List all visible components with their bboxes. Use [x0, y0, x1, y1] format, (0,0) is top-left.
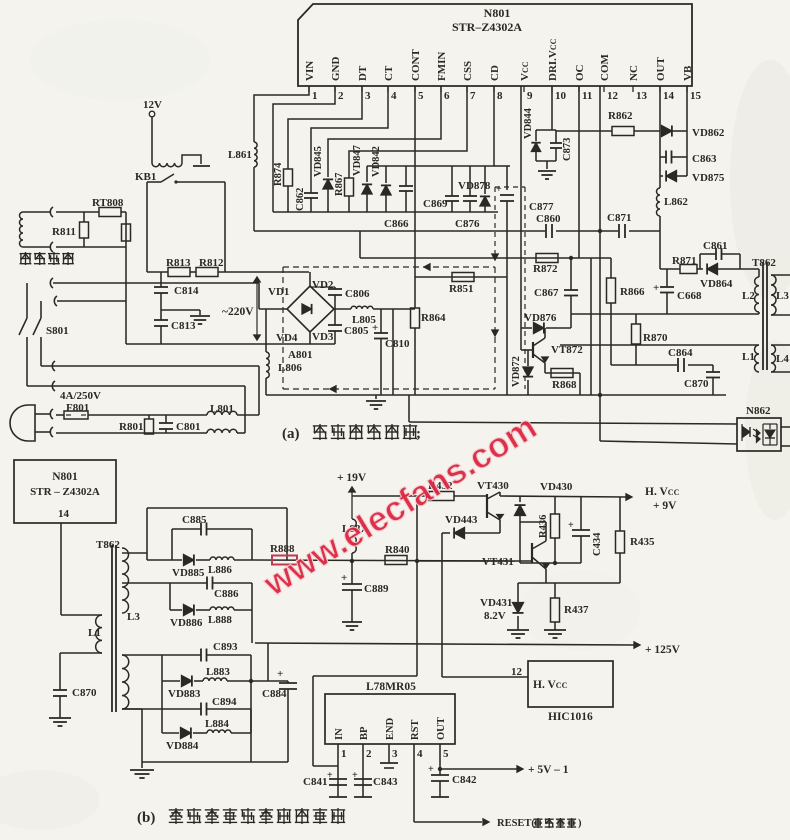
node 12V terminal [149, 111, 155, 117]
wire VD845 to bus [327, 189, 329, 212]
fuse F801 [56, 414, 64, 416]
wire OUT pin down [439, 744, 441, 775]
svg-text:10: 10 [555, 90, 567, 102]
IC N801 bottom box [14, 460, 116, 523]
ground C889 [342, 621, 362, 623]
resistor R851 [452, 273, 474, 282]
wire R812 to bridge top [218, 271, 309, 273]
wire AC line y301 [57, 300, 126, 302]
svg-text:VD842: VD842 [371, 146, 382, 177]
svg-text:DRI.VCC: DRI.VCC [547, 38, 559, 81]
wire bridge top to y272 [309, 272, 311, 286]
op-amp U1 IC N801 STR-Z4302A body [298, 4, 692, 86]
svg-text:(a): (a) [282, 426, 300, 442]
resistor R811 [83, 212, 85, 222]
capacitor C860 in line [545, 223, 556, 239]
svg-text:OUT: OUT [436, 717, 447, 740]
svg-text:+ 125V: + 125V [645, 644, 681, 656]
diode VD862 [662, 125, 672, 136]
svg-text:4A/250V: 4A/250V [60, 390, 101, 402]
svg-text:N862: N862 [746, 405, 771, 417]
svg-text:R870: R870 [643, 332, 668, 344]
svg-text:VD845: VD845 [313, 146, 324, 177]
ground main bus [375, 395, 377, 399]
svg-text:VD431: VD431 [480, 597, 512, 609]
resistor R872 [536, 254, 558, 263]
wire RST down to reset [413, 744, 415, 822]
svg-text:C876: C876 [455, 218, 480, 230]
IC L78MR05 box [325, 694, 455, 744]
svg-text:HIC1016: HIC1016 [548, 711, 593, 723]
capacitor C861 branch [699, 254, 701, 269]
svg-text:L1: L1 [88, 627, 101, 639]
wire R862 to VD862 [634, 130, 660, 132]
degaussing coil [20, 212, 24, 247]
svg-text:CD: CD [489, 65, 501, 81]
resistor R862 [612, 127, 634, 136]
wire pin2 outer loop [273, 86, 335, 212]
capacitor unlabeled pin8 [405, 166, 407, 186]
svg-text:+: + [653, 282, 659, 294]
svg-text:+: + [428, 764, 434, 775]
wire AC line y283 [53, 282, 259, 284]
svg-text:VIN: VIN [304, 61, 316, 81]
wire y365 line [611, 364, 713, 366]
svg-text:C813: C813 [171, 320, 196, 332]
capacitor C813 [154, 319, 168, 321]
svg-text:VCC: VCC [519, 61, 531, 81]
svg-text:VD847: VD847 [352, 145, 363, 176]
svg-text:C893: C893 [213, 641, 238, 653]
inductor L861 [254, 142, 257, 167]
svg-text:RST: RST [410, 720, 421, 740]
wire pin7 stair [349, 86, 467, 178]
wire x245 down [244, 386, 246, 433]
svg-text:;: ; [416, 426, 421, 442]
svg-text:OC: OC [574, 64, 586, 81]
optocoupler photodiode [769, 424, 771, 429]
svg-text:VD1: VD1 [268, 286, 289, 298]
svg-text:R867: R867 [334, 173, 345, 196]
svg-text:IN: IN [334, 728, 345, 740]
winding L1 bottom left [96, 615, 102, 653]
zener VD431 [517, 583, 519, 602]
svg-text:VD844: VD844 [523, 107, 534, 139]
svg-text:C884: C884 [262, 688, 287, 700]
svg-text:C434: C434 [592, 532, 603, 556]
dashed arrow top [424, 264, 430, 270]
svg-text:VD885: VD885 [172, 567, 205, 579]
capacitor C885 [172, 528, 201, 530]
wire lower loop right to 125V rail [251, 583, 253, 643]
svg-text:DT: DT [357, 65, 369, 81]
wire bottom AC line y433 [56, 432, 207, 434]
svg-text:1: 1 [341, 748, 347, 760]
capacitor C873 [550, 142, 562, 144]
diode VD842 [385, 166, 387, 183]
svg-text:C864: C864 [668, 347, 693, 359]
thermistor RT808 [56, 211, 99, 213]
capacitor C869 [451, 166, 453, 196]
node line y563 [520, 562, 581, 564]
svg-text:VD862: VD862 [692, 127, 725, 139]
wire C885 branch left [171, 529, 173, 560]
svg-text:FMIN: FMIN [436, 52, 448, 81]
svg-text:S801: S801 [46, 325, 69, 337]
diode VD878 [484, 166, 486, 194]
wire L862 down to C871 line [659, 216, 661, 231]
wire L1 feedback line y345 [560, 344, 759, 346]
transformer T862 bottom core [111, 545, 113, 712]
bridge inner diode [302, 304, 312, 314]
inductor L806 [265, 309, 267, 352]
inductor L888 [196, 609, 210, 611]
wire END pin down [388, 744, 390, 763]
svg-text:14: 14 [58, 508, 70, 520]
svg-text:A801: A801 [288, 349, 312, 361]
optocoupler N862 box [737, 418, 781, 451]
resistor unlabeled x126 [122, 224, 131, 241]
svg-text:L886: L886 [208, 564, 232, 576]
wire pin1 to L861 [254, 86, 309, 142]
wire loop left x162 [161, 655, 163, 733]
svg-text:VD878: VD878 [458, 180, 491, 192]
capacitor C801 [165, 415, 167, 423]
wire C871 to R871 line [659, 231, 661, 269]
svg-text:12: 12 [511, 666, 523, 678]
inductor L805 [351, 306, 373, 309]
ground R437 [544, 629, 566, 631]
svg-text:VT431: VT431 [482, 556, 514, 568]
relay contact box [147, 181, 161, 183]
svg-text:C869: C869 [423, 198, 448, 210]
svg-text:GND: GND [330, 57, 342, 82]
svg-text:C886: C886 [214, 588, 239, 600]
wire x591 down [590, 258, 592, 395]
dashed arrow right edge [492, 330, 498, 336]
resistor R436 [554, 497, 556, 514]
svg-text:): ) [578, 818, 582, 829]
svg-text:1: 1 [312, 90, 318, 102]
resistor R888 red marked [272, 556, 297, 565]
wire pin3 stair [288, 86, 362, 169]
svg-text:L883: L883 [206, 666, 230, 678]
svg-text:8.2V: 8.2V [484, 610, 506, 622]
diode VD884 [162, 732, 179, 734]
svg-text:T862: T862 [96, 539, 120, 551]
svg-text:R801: R801 [119, 421, 143, 433]
capacitor C870 right [712, 365, 714, 372]
wire N862 lower [600, 441, 737, 444]
node dot L883 out [249, 679, 253, 683]
svg-text:L4: L4 [776, 353, 789, 365]
ground VD431 [507, 629, 529, 631]
svg-text:R840: R840 [385, 544, 410, 556]
resistor R866 [610, 258, 612, 278]
resistor R868 line [545, 372, 580, 374]
wire pin8 cluster line [494, 165, 510, 167]
svg-text:OUT: OUT [655, 57, 667, 82]
svg-text:+ 19V: + 19V [337, 472, 367, 484]
capacitor C889 polarized [351, 561, 353, 584]
wire L3 top tap [122, 552, 147, 554]
wire R874 to bus [287, 186, 289, 212]
svg-text:F801: F801 [66, 402, 89, 414]
svg-text:+ 9V: + 9V [653, 500, 677, 512]
wire riser x360 [359, 231, 361, 258]
optocoupler LED [741, 424, 743, 441]
svg-text:L861: L861 [228, 149, 252, 161]
ground lower group [122, 708, 142, 710]
rail 19V y560 [252, 560, 515, 561]
svg-text:15: 15 [690, 90, 702, 102]
svg-text:VD3: VD3 [312, 331, 334, 343]
bottom bus lower group [142, 761, 288, 763]
transistor VT872 [521, 349, 533, 351]
svg-text:C862: C862 [295, 188, 306, 211]
svg-text:C866: C866 [384, 218, 409, 230]
svg-text:R437: R437 [564, 604, 589, 616]
svg-text:R812: R812 [199, 257, 224, 269]
ground C813 [190, 315, 210, 317]
svg-text:C889: C889 [364, 583, 389, 595]
svg-text:VD864: VD864 [700, 278, 733, 290]
svg-text:6: 6 [444, 90, 450, 102]
svg-text:VD876: VD876 [524, 312, 557, 324]
wire node down x393 [392, 309, 394, 395]
wire pin5 vertical [414, 86, 416, 308]
svg-text:C806: C806 [345, 288, 370, 300]
dashed arrow bottom [330, 386, 336, 392]
diode VD875 [660, 175, 663, 177]
wire pin11 down [578, 86, 580, 258]
svg-text:C870: C870 [72, 687, 97, 699]
arrow RESET [483, 819, 489, 825]
resistor R864 [411, 308, 420, 328]
capacitor C871 in line [618, 223, 629, 239]
diode VD872 [527, 350, 529, 366]
resistor R868 [551, 369, 573, 378]
bus y314 [571, 313, 759, 315]
svg-text:+ 5V – 1: + 5V – 1 [528, 764, 569, 776]
capacitor C886 [170, 582, 207, 584]
svg-text:C801: C801 [176, 421, 200, 433]
wire L861 to C866 line [253, 167, 255, 231]
resistor R801 [148, 415, 150, 419]
switch S801 pole2 [40, 301, 42, 318]
wire L3 mid tap [122, 582, 170, 584]
svg-text:H. VCC: H. VCC [533, 679, 568, 691]
wire lower loop left [169, 583, 171, 610]
svg-text:+: + [496, 184, 502, 195]
svg-text:12V: 12V [143, 99, 162, 111]
svg-text:R872: R872 [533, 263, 558, 275]
wire pin15 down [686, 86, 688, 176]
svg-text:R813: R813 [166, 257, 191, 269]
svg-text:CSS: CSS [462, 61, 474, 81]
svg-text:KB1: KB1 [135, 171, 156, 183]
wire L806 to bus [265, 378, 267, 395]
svg-text:R874: R874 [273, 162, 284, 186]
svg-text:L78MR05: L78MR05 [366, 681, 416, 693]
wire R432 line from 19V stem [352, 495, 429, 497]
wire block to R862 [556, 130, 612, 132]
svg-text:H. VCC: H. VCC [645, 486, 680, 498]
svg-text:BP: BP [359, 726, 370, 740]
svg-text:2: 2 [366, 748, 372, 760]
svg-text:R436: R436 [538, 515, 549, 538]
svg-text:13: 13 [636, 90, 648, 102]
capacitor unlabeled C876 area [469, 166, 471, 196]
node dot 19V [350, 559, 354, 563]
winding L2 [755, 277, 759, 312]
diode VD844 [531, 143, 540, 152]
resistor R871 [680, 265, 697, 274]
capacitor C810 polarized [380, 309, 382, 333]
svg-text:C842: C842 [452, 774, 477, 786]
transistor VT430 [486, 494, 488, 518]
svg-text:STR–Z4302A: STR–Z4302A [452, 20, 522, 34]
svg-text:VT872: VT872 [551, 344, 583, 356]
svg-text:C805: C805 [344, 325, 369, 337]
diode VD847 [366, 166, 368, 182]
capacitor C863 [660, 156, 666, 158]
winding lower secondary [122, 655, 129, 709]
winding L3 bottom [122, 548, 129, 613]
watermark elecfans [256, 407, 543, 604]
wire bridge right to L805 [334, 308, 351, 310]
svg-text:C873: C873 [562, 138, 573, 161]
optocoupler arrows [753, 429, 759, 433]
wire BP pin down [362, 744, 364, 797]
wire R872 line [360, 257, 611, 259]
wire x251 down [250, 681, 252, 762]
svg-text:R435: R435 [630, 536, 655, 548]
wire C862 to bus [310, 198, 312, 212]
capacitor C893 [200, 649, 202, 662]
svg-text:R862: R862 [608, 110, 633, 122]
transistor VT431 [531, 543, 533, 563]
svg-text:N801: N801 [484, 6, 511, 20]
mains plug [10, 405, 35, 441]
ground bus under pins [273, 211, 498, 213]
dashed box power section [283, 266, 495, 268]
inductor L886 [196, 559, 210, 561]
wire OUT to +5V [440, 768, 517, 770]
wire VD443 feed down [441, 533, 443, 677]
svg-text:L862: L862 [664, 196, 688, 208]
svg-text:5: 5 [443, 748, 449, 760]
wire pin10 down [551, 86, 553, 130]
svg-text:C863: C863 [692, 153, 717, 165]
wire VT430 emitter down [499, 520, 501, 533]
inductor L887 [352, 519, 356, 553]
dashed box C877 [495, 186, 525, 188]
svg-text:8: 8 [497, 90, 503, 102]
svg-text:L888: L888 [208, 614, 232, 626]
wire pin6 stair [328, 86, 441, 177]
svg-text:L1: L1 [742, 351, 755, 363]
svg-text:CT: CT [383, 65, 395, 81]
wire pin14 stub down [60, 523, 62, 615]
winding L3 right [771, 275, 776, 315]
svg-text:4: 4 [417, 748, 423, 760]
svg-text:R811: R811 [52, 226, 76, 238]
wire N862 right stubs [781, 426, 790, 428]
wire R871 line [660, 268, 680, 270]
resistor R812 [190, 271, 196, 273]
wire L1 bottom to C870 [60, 652, 102, 654]
wire R864 down to bus [414, 328, 416, 395]
diode VD844 block wires [536, 129, 556, 131]
svg-text:12: 12 [607, 90, 619, 102]
wire rail y344 [126, 343, 335, 345]
wire emitter down [545, 569, 547, 583]
resistor R435 [619, 497, 621, 531]
plug pins [35, 413, 50, 415]
capacitor C870 bottom [59, 653, 61, 690]
wire upper outer loop top [147, 507, 287, 509]
svg-text:9: 9 [527, 90, 533, 102]
svg-text:C841: C841 [303, 776, 327, 788]
wire N862 upper [408, 395, 410, 422]
svg-text:C668: C668 [677, 290, 702, 302]
svg-text:L2: L2 [742, 290, 755, 302]
wire R811 bottom line [56, 246, 126, 248]
ground VD844 block [546, 161, 548, 169]
wire bridge bottom to rail [309, 332, 311, 344]
capacitor C877 [506, 166, 508, 190]
diode VD876 [521, 327, 532, 329]
wire x251 to junction [250, 655, 252, 681]
inductor L883 [194, 680, 203, 682]
svg-text:R851: R851 [449, 283, 473, 295]
wire pin8 stair [367, 86, 494, 166]
label degaussing coil xiaoci [20, 252, 32, 265]
svg-text:COM: COM [599, 54, 611, 82]
dashed arrow C877 down [492, 254, 498, 260]
svg-text:RT808: RT808 [92, 197, 124, 209]
svg-text:C861: C861 [703, 240, 727, 252]
wire pin12 to bottom bus [599, 231, 601, 441]
svg-text:C870: C870 [684, 378, 709, 390]
svg-text:3: 3 [365, 90, 371, 102]
svg-text:C860: C860 [536, 213, 561, 225]
wire emitter line y583 [518, 582, 620, 584]
ground C870 [49, 717, 71, 719]
wire lower top tap [122, 654, 201, 656]
svg-text:VD4: VD4 [276, 332, 298, 344]
node dot R436 [553, 561, 557, 565]
svg-text:END: END [385, 717, 396, 740]
svg-text:C867: C867 [534, 287, 559, 299]
bridge rectifier diamond A801 [287, 286, 334, 332]
capacitor C862 [304, 192, 318, 194]
inductor L884 [193, 732, 207, 734]
svg-text:CONT: CONT [410, 49, 422, 81]
svg-text:C843: C843 [373, 776, 398, 788]
wire line y386 [27, 385, 245, 387]
svg-text:C814: C814 [174, 285, 199, 297]
wire line y366 [41, 365, 259, 367]
svg-text:L3: L3 [127, 611, 140, 623]
inductor L801 top [207, 411, 237, 415]
wire VT872 emitter down [544, 363, 546, 373]
svg-text:VD875: VD875 [692, 172, 725, 184]
svg-text:3: 3 [392, 748, 398, 760]
svg-text:~220V: ~220V [222, 306, 254, 318]
wire feed loop to IN [416, 496, 418, 676]
